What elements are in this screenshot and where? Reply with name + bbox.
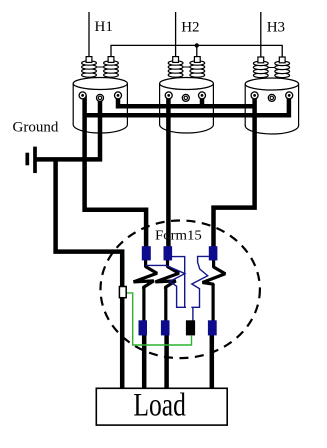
wire T1 center terminal to ground bus <box>35 98 100 159</box>
svg-text:H2: H2 <box>181 20 199 36</box>
Load box <box>96 388 227 425</box>
T3 right bushing <box>275 57 290 78</box>
T2 terminal X1 <box>165 92 172 99</box>
potential coil 2 lead to meter bottom terminal 3 <box>192 307 194 320</box>
transformer T1 can <box>73 78 127 134</box>
meter top terminal 3 <box>209 246 218 260</box>
transformer T2 can <box>160 78 214 134</box>
T1 bushing link line <box>89 66 111 68</box>
meter top terminal 2 <box>164 246 173 260</box>
T2 terminal X2 <box>182 94 189 101</box>
svg-text:H3: H3 <box>267 20 285 36</box>
T1 terminal X1 <box>79 92 86 99</box>
meter bottom terminal 3 <box>186 320 195 335</box>
T2 left bushing <box>168 57 183 78</box>
meter current coil 2 <box>155 259 179 321</box>
svg-text:Form15: Form15 <box>155 229 202 244</box>
wire T2 left terminal to meter terminal 2 <box>166 95 171 250</box>
meter bottom terminal 1 <box>139 320 148 335</box>
wire T1 left terminal to meter terminal 1 <box>85 95 147 250</box>
T3 bushing link line <box>261 67 282 69</box>
ground symbol tall bar <box>33 147 37 174</box>
H1 lead wire <box>88 12 90 57</box>
T1 terminal X3 <box>115 92 122 99</box>
T3 terminal X1 <box>251 92 258 99</box>
svg-text:Ground: Ground <box>13 120 59 136</box>
meter bottom terminal 4 <box>208 320 217 335</box>
meter top terminal 1 <box>142 246 151 260</box>
bus A stub from T2 right terminal <box>200 95 205 106</box>
T1 right bushing <box>104 57 119 78</box>
T3 left bushing <box>253 57 268 78</box>
secondary bus B <box>85 95 289 115</box>
meter dashed boundary circle <box>101 220 260 358</box>
transformer T3 can <box>245 78 298 134</box>
meter current coil 1 <box>134 259 158 321</box>
ground tap wire to load <box>56 159 123 390</box>
potential coil 1 blue wiring <box>146 257 186 308</box>
wire meter bottom terminal 1 to load <box>142 333 147 390</box>
H2 lead wire <box>175 12 177 57</box>
ground symbol short bar <box>25 153 29 166</box>
H3 lead wire <box>260 12 262 57</box>
T2 bushing link line <box>176 66 198 68</box>
svg-text:Load: Load <box>133 388 186 424</box>
primary tie wire H bushings <box>111 45 282 57</box>
potential coil 2 blue wiring <box>191 256 209 307</box>
wire meter bottom terminal 2 to load <box>164 333 169 390</box>
T3 terminal X3 <box>286 92 293 99</box>
T3 terminal X2 <box>268 94 275 101</box>
wire T3 left terminal to meter terminal 3 <box>214 95 255 250</box>
meter current coil 3 <box>203 259 226 321</box>
meter bottom terminal 2 <box>161 320 170 335</box>
svg-text:H1: H1 <box>95 19 113 35</box>
T2 terminal X3 <box>199 92 206 99</box>
green potential link wire <box>126 293 191 345</box>
T1 left bushing <box>82 57 97 78</box>
tie wire stub to T2 right bushing <box>196 45 198 56</box>
junction dot on tie wire <box>195 43 199 47</box>
potential link rectangle <box>119 287 126 298</box>
T1 terminal X2 <box>97 94 104 101</box>
secondary bus A <box>118 95 255 106</box>
T2 right bushing <box>190 57 205 78</box>
wire meter bottom terminal 4 to load <box>210 331 215 390</box>
